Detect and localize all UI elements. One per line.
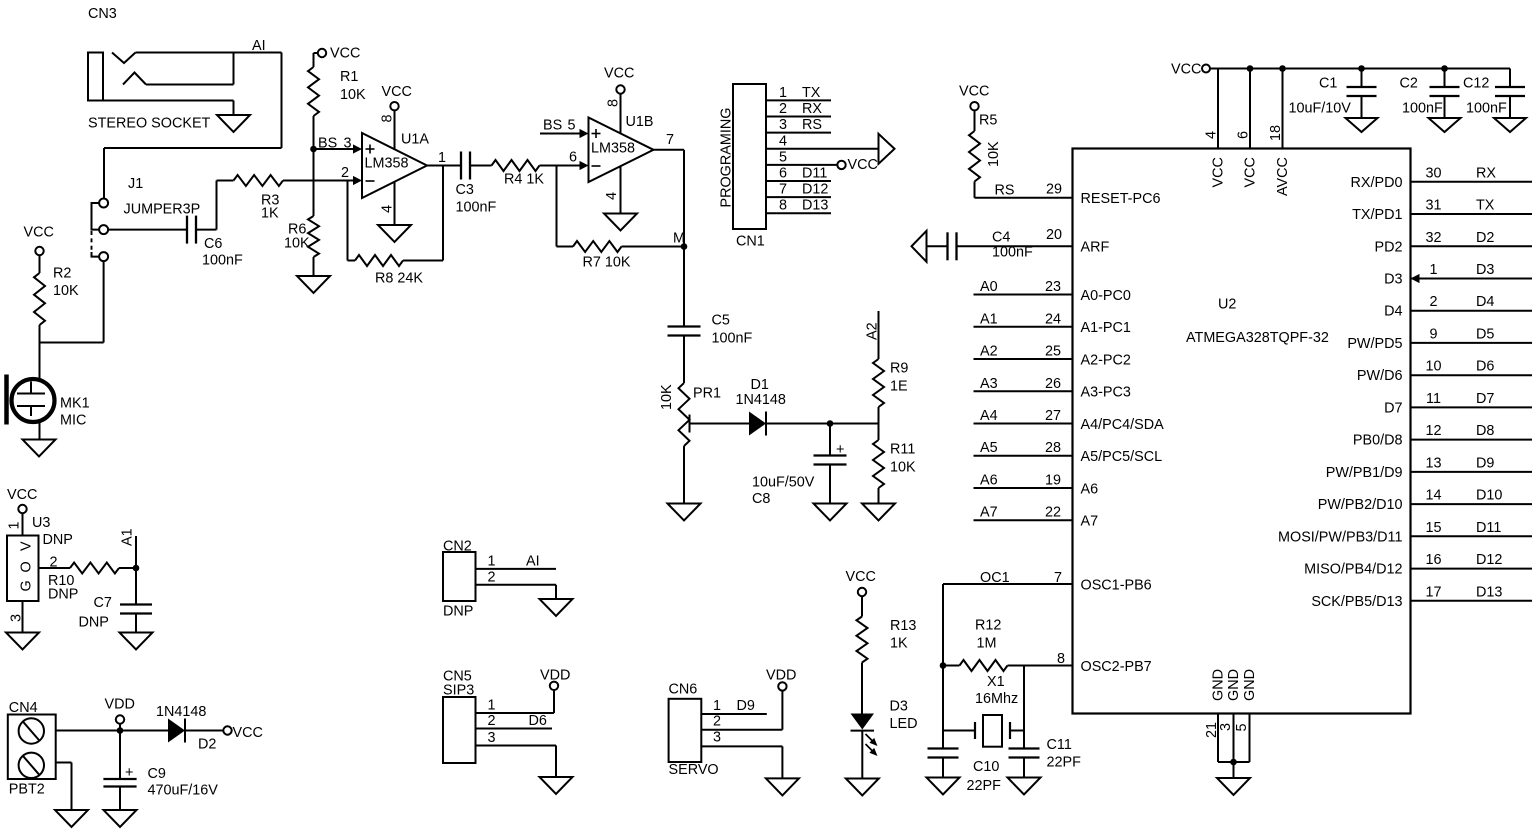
svg-text:R11: R11 [890,442,915,458]
wire R13 to D3 [861,663,863,714]
svg-text:3: 3 [1218,723,1234,731]
capacitor C5 [668,325,701,327]
svg-text:VCC: VCC [846,569,876,585]
wire net D10 [1411,503,1533,505]
resistor R8 [348,260,356,262]
svg-text:TX: TX [1476,198,1495,214]
svg-text:C3: C3 [456,182,474,198]
wire CN1 pin 7 [766,196,831,198]
node BS stub (U1B) [540,133,580,135]
wire CN6 pin3 [701,745,782,747]
wire CN4 pin1 [56,730,168,732]
svg-text:LM358: LM358 [365,156,409,172]
wire C8 to ground [829,465,831,504]
LED D3 [851,714,875,730]
junction GND [1230,759,1237,766]
wire net D8 [1411,439,1533,441]
resistor R3 [234,175,284,186]
power VDD (CN6) [778,682,786,690]
svg-text:22PF: 22PF [967,778,1002,794]
svg-text:U3: U3 [32,515,50,531]
svg-text:1K: 1K [890,636,908,652]
svg-text:R2: R2 [53,266,71,282]
svg-text:3: 3 [344,136,352,152]
svg-text:19: 19 [1045,473,1061,489]
wire AI bottom [104,147,282,149]
svg-text:10K: 10K [340,87,366,103]
wire net RX [1411,181,1533,183]
svg-text:R13: R13 [890,618,916,634]
svg-text:28: 28 [1045,440,1061,456]
wire output down to R8 [442,166,444,261]
power VCC (U3) [18,505,26,513]
svg-text:16: 16 [1425,552,1441,568]
ground (U1B) [604,214,637,231]
svg-text:DNP: DNP [43,532,73,548]
wire OC1 to U2 pin7 [943,583,1073,585]
svg-text:20: 20 [1046,227,1062,243]
svg-text:C5: C5 [712,313,730,329]
wire net A1 [974,326,1073,328]
IC U2 body [1073,149,1411,714]
wire VCC jog to R1 [314,52,318,54]
wire C5 to PR1 [683,336,685,384]
wire C4 to ARF [957,245,1073,247]
svg-text:DNP: DNP [443,604,473,620]
wire C1 to ground [1361,96,1363,118]
wire tip-ring join [233,53,235,85]
svg-text:A1: A1 [980,311,998,327]
svg-text:D13: D13 [802,198,828,214]
svg-text:PB0/D8: PB0/D8 [1353,433,1403,449]
capacitor C8 [814,454,847,456]
svg-text:12: 12 [1425,423,1441,439]
svg-text:1: 1 [779,85,787,101]
svg-text:D12: D12 [1476,552,1502,568]
svg-text:U1B: U1B [626,114,654,130]
svg-text:PBT2: PBT2 [9,782,45,798]
wire net D7 [1411,406,1533,408]
svg-text:16Mhz: 16Mhz [975,691,1018,707]
svg-text:PW/D6: PW/D6 [1357,368,1403,384]
wire CN1 pin 6 [766,180,831,182]
svg-text:+: + [125,765,133,781]
junction BS [310,146,317,153]
wire U1A pin4 [394,182,396,225]
ground (PR1) [668,504,701,521]
svg-text:OSC2-PB7: OSC2-PB7 [1081,659,1152,675]
svg-text:D13: D13 [1476,584,1502,600]
svg-text:5: 5 [568,118,576,134]
wire net A7 [974,519,1073,521]
svg-text:24: 24 [1045,311,1061,327]
wire net A5 [974,455,1073,457]
wire VDD to node [119,724,121,731]
svg-text:X1: X1 [987,674,1005,690]
svg-text:O: O [19,561,35,572]
wire C12 to ground [1509,96,1511,118]
svg-text:C9: C9 [148,766,166,782]
wire GND to ground [1233,762,1235,778]
svg-text:1M: 1M [977,636,997,652]
svg-text:R4 1K: R4 1K [504,172,544,188]
svg-text:14: 14 [1425,488,1441,504]
svg-text:+: + [836,442,844,458]
svg-text:4: 4 [380,205,396,213]
stereo socket body [88,53,103,101]
resistor R4 [492,160,540,171]
wire C6 to corner [196,229,217,231]
svg-text:GND: GND [1226,669,1242,701]
wire net A3 [974,390,1073,392]
wire C10 to ground [942,758,944,778]
svg-text:1: 1 [488,554,496,570]
svg-text:VCC: VCC [24,225,54,241]
svg-text:OSC1-PB6: OSC1-PB6 [1081,577,1152,593]
svg-text:SCK/PB5/D13: SCK/PB5/D13 [1311,594,1402,610]
wire U1A output [427,165,461,167]
wire CN5 pin2 [476,728,553,730]
junction rail C2 [1441,65,1448,72]
jumper J1 pin 2 [99,225,108,234]
wire corner up [216,181,218,230]
svg-text:1: 1 [1429,262,1437,278]
svg-text:V: V [19,541,35,551]
ground (U1A) [378,225,411,242]
svg-text:R5: R5 [979,113,997,129]
svg-text:LM358: LM358 [591,141,635,157]
wire rail to C1 [1361,69,1363,88]
svg-text:MOSI/PW/PB3/D11: MOSI/PW/PB3/D11 [1278,529,1402,545]
pin 2 arrow [353,176,362,185]
svg-text:A0: A0 [980,279,998,295]
svg-text:VCC: VCC [959,84,989,100]
svg-text:9: 9 [1429,326,1437,342]
wire U3 pin2 [39,567,71,569]
jumper J1 bracket 3 [92,252,100,257]
svg-text:D2: D2 [1476,230,1494,246]
svg-text:C7: C7 [94,595,112,611]
svg-text:VDD: VDD [540,668,570,684]
svg-text:1: 1 [488,698,496,714]
jumper J1 pin 1 [99,199,108,208]
svg-text:A5: A5 [980,440,998,456]
svg-text:2: 2 [488,713,496,729]
wire C9 to ground [119,787,121,811]
svg-text:2: 2 [341,165,349,181]
svg-text:22: 22 [1045,505,1061,521]
wire A2 to R9 [878,311,880,359]
ground (C10) [927,778,960,795]
wire D2 to VCC [185,730,223,732]
wire CN1 pin 4 [766,148,879,150]
svg-text:17: 17 [1425,584,1441,600]
svg-text:A6: A6 [1081,481,1099,497]
ground (CN6) [766,778,799,795]
svg-text:5: 5 [1234,723,1250,731]
svg-text:RS: RS [995,183,1015,199]
wire J1 pin2 to C6 [108,229,187,231]
svg-text:3: 3 [488,730,496,746]
wire R8 to pin2 row [347,181,349,261]
wire C2 to ground [1444,96,1446,118]
wire BS down to R6 [313,149,315,216]
junction OSC1 [940,662,947,669]
wire net A6 [974,487,1073,489]
svg-text:CN3: CN3 [88,6,117,22]
svg-text:D4: D4 [1476,294,1494,310]
svg-text:LED: LED [890,716,918,732]
wire VCC to U3 [22,513,24,535]
wire CN6 pin1 [701,713,767,715]
wire VCC to R13 [861,596,863,616]
svg-text:C12: C12 [1463,76,1489,92]
svg-text:VCC: VCC [1171,62,1201,78]
svg-text:R1: R1 [340,69,358,85]
wire U2 pin3 (GND) [1233,714,1235,763]
svg-text:8: 8 [606,99,622,107]
svg-text:CN1: CN1 [736,234,765,250]
svg-text:18: 18 [1268,125,1284,141]
junction rail C1 [1358,65,1365,72]
wire net D3 [1411,278,1533,280]
wire arrow to C4 [927,245,948,247]
wire sleeve line [103,100,234,102]
svg-text:6: 6 [569,150,577,166]
svg-text:C6: C6 [204,236,222,252]
power VCC (R1) [318,49,326,57]
svg-text:D7: D7 [1476,391,1494,407]
svg-text:ATMEGA328TQPF-32: ATMEGA328TQPF-32 [1186,330,1329,346]
svg-text:R8 24K: R8 24K [375,271,423,287]
svg-text:A4/PC4/SDA: A4/PC4/SDA [1081,417,1165,433]
svg-text:C8: C8 [752,491,770,507]
svg-text:6: 6 [1236,131,1252,139]
wire R2 to node [39,325,41,343]
wire U1B pin8 [620,94,622,134]
connector CN5 [443,697,476,763]
svg-text:D2: D2 [198,737,216,753]
connector CN2 [443,552,476,601]
svg-text:MIC: MIC [60,413,86,429]
op-amp U1B [589,118,654,183]
resistor R2 [34,273,45,325]
wire net D9 [1411,471,1533,473]
connector CN4 [8,715,56,780]
svg-text:1: 1 [713,698,721,714]
svg-text:10K: 10K [986,141,1002,167]
svg-text:470uF/16V: 470uF/16V [148,783,219,799]
svg-text:32: 32 [1425,230,1441,246]
resistor R1 [308,67,319,116]
power VCC (U1A pin8) [390,102,398,110]
wire CN5 pin3 [476,745,557,747]
wire tip line [136,52,282,54]
power VDD (CN4) [116,715,124,723]
svg-text:4: 4 [604,192,620,200]
svg-text:7: 7 [779,182,787,198]
resistor R6 [308,216,319,257]
power VCC (R5) [970,102,978,110]
wire R12 to U2 pin8 [1024,665,1073,667]
wire U2 pin21 (GND) [1217,714,1219,763]
wire pin8 down [1023,666,1025,749]
off-page arrow (CN1 pin 4) [879,134,895,164]
svg-text:1K: 1K [261,206,279,222]
svg-text:PD2: PD2 [1375,239,1403,255]
svg-text:OC1: OC1 [980,570,1010,586]
svg-text:C4: C4 [992,230,1010,246]
power VCC (R13) [858,588,866,596]
wire AI vertical [281,53,283,149]
wire net D5 [1411,342,1533,344]
wire C11 to ground [1023,758,1025,778]
wire net D12 [1411,568,1533,570]
wire U2 pin5 (GND) [1249,714,1251,763]
svg-text:A2: A2 [980,344,998,360]
power VCC (R2) [35,247,43,255]
svg-text:D6: D6 [1476,359,1494,375]
wire R5 to RS row [974,182,976,198]
wire U1B pin4 [620,166,622,213]
svg-text:A1: A1 [120,528,136,546]
svg-text:A2-PC2: A2-PC2 [1081,352,1131,368]
svg-text:D3: D3 [1476,262,1494,278]
svg-text:10uF/10V: 10uF/10V [1289,101,1352,117]
power VDD (CN5) [550,682,558,690]
ground (stereo socket) [217,115,250,132]
svg-text:AI: AI [526,554,540,570]
ground (CN5) [540,777,573,794]
wire CN2 pin1 [476,568,557,570]
svg-text:2: 2 [779,101,787,117]
svg-text:R7 10K: R7 10K [583,255,631,271]
svg-text:D7: D7 [1384,400,1402,416]
ground (C1) [1346,118,1378,132]
svg-text:G: G [19,580,35,591]
ground (MIC) [23,440,56,457]
svg-text:DNP: DNP [79,615,109,631]
svg-text:2: 2 [713,713,721,729]
wire R10 to node [119,567,136,569]
svg-text:VCC: VCC [1243,157,1259,187]
off-page arrow (C4) [912,231,927,262]
svg-text:VCC: VCC [7,487,37,503]
capacitor C4 [946,232,948,260]
wire rail to C2 [1444,69,1446,88]
svg-text:4: 4 [779,133,787,149]
svg-text:30: 30 [1425,165,1441,181]
svg-text:MK1: MK1 [60,396,90,412]
svg-text:PW/PD5: PW/PD5 [1347,336,1402,352]
svg-text:C11: C11 [1047,737,1072,753]
svg-text:GND: GND [1211,669,1227,701]
svg-text:10K: 10K [659,384,675,410]
svg-text:100nF: 100nF [202,253,243,269]
svg-text:1N4148: 1N4148 [156,704,206,720]
svg-text:PW/PB1/D9: PW/PB1/D9 [1326,465,1403,481]
wire CN1 pin 8 [766,212,831,214]
svg-text:CN6: CN6 [669,682,698,698]
ground (U2) [1217,778,1250,795]
svg-text:C2: C2 [1400,76,1418,92]
svg-text:VCC: VCC [1211,157,1227,187]
wire AI to J1 [103,148,105,199]
capacitor C1 [1347,86,1377,88]
svg-text:VCC: VCC [848,157,878,173]
wire VCC to R5 [974,110,976,131]
svg-text:15: 15 [1425,520,1441,536]
svg-text:U1A: U1A [401,132,429,148]
capacitor C2 [1430,86,1460,88]
svg-text:13: 13 [1425,455,1441,471]
wire net D13 [1411,600,1533,602]
wire net A0 [974,294,1073,296]
potentiometer PR1 [679,383,690,446]
wire corner to R3 [217,180,234,182]
svg-text:26: 26 [1045,376,1061,392]
resistor R9 [873,359,884,407]
svg-text:D5: D5 [1476,326,1494,342]
capacitor C9 [103,778,136,780]
resistor R12 [943,665,960,667]
svg-text:3: 3 [713,730,721,746]
pin 1 arrow (D3) [1411,274,1420,283]
IC U3 body [7,536,39,602]
svg-text:1E: 1E [890,379,908,395]
wire CN5 pin1 [476,712,555,714]
wire M down to C5 [683,247,685,327]
svg-text:PW/PB2/D10: PW/PB2/D10 [1318,497,1403,513]
svg-text:31: 31 [1425,198,1441,214]
capacitor C6 [186,216,188,244]
svg-text:D11: D11 [802,166,827,182]
wire junction to C8 [829,424,831,456]
wire U1A pin8 [394,110,396,149]
ground (CN2) [540,599,573,616]
svg-text:GND: GND [1242,669,1258,701]
svg-text:2: 2 [1429,294,1437,310]
svg-text:2: 2 [488,570,496,586]
svg-text:D12: D12 [802,182,828,198]
svg-text:PR1: PR1 [693,386,721,402]
svg-text:ARF: ARF [1081,240,1110,256]
wire CN5 pin1 to VDD [553,690,555,713]
svg-text:RX: RX [802,101,822,117]
wire net TX [1411,213,1533,215]
svg-text:RS: RS [802,117,822,133]
ground (C2) [1429,118,1461,132]
ground (C8) [814,504,847,521]
wire J1 to R2 node [40,342,104,344]
ground (C9) [104,810,137,827]
wire rail to C12 [1509,69,1511,88]
wire D3 to ground [861,731,863,779]
svg-text:R9: R9 [890,361,908,377]
svg-text:J1: J1 [128,176,143,192]
wire U3 pin3 [22,601,24,633]
wire CN5 pin3 to ground [555,746,557,778]
wire CN2 pin2 [476,584,557,586]
svg-text:AVCC: AVCC [1275,157,1291,196]
wire CN6 pin2 to VDD [781,691,783,730]
svg-text:10K: 10K [284,236,310,252]
svg-text:A5/PC5/SCL: A5/PC5/SCL [1081,449,1163,465]
svg-text:VDD: VDD [105,697,135,713]
jumper J1 dashed link 2-3 [91,231,93,252]
ground (CN4) [55,810,88,827]
wire C3 to R4 [470,165,492,167]
